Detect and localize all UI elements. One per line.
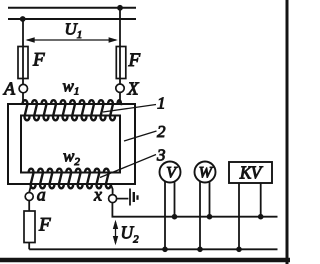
svg-text:F: F: [32, 50, 45, 71]
svg-text:X: X: [127, 79, 140, 99]
fuse F lower: [24, 211, 35, 243]
terminal x circle: [109, 195, 117, 203]
svg-text:U1: U1: [65, 20, 83, 42]
junction dot V lead on upper rail: [172, 214, 178, 220]
core inner rectangle: [21, 116, 120, 173]
svg-text:2: 2: [157, 122, 166, 141]
fuse F right: [116, 47, 126, 79]
svg-text:w2: w2: [63, 147, 80, 169]
leader line to label 2 (core): [124, 131, 157, 141]
junction dot KV lead on upper rail: [258, 214, 264, 220]
svg-text:w1: w1: [63, 76, 80, 97]
bus wire line1 (top supply conductor): [8, 7, 136, 9]
leader line to label 1 (primary winding): [103, 105, 156, 113]
wire w2 left end to terminal a: [29, 185, 31, 193]
terminal A circle: [19, 84, 27, 92]
wire lower fuse to bottom rail: [28, 243, 30, 250]
junction dot on line2 (left drop): [20, 16, 26, 22]
wire bottom measuring rail: [29, 248, 277, 250]
ground symbol (earth): [130, 189, 138, 206]
page frame bottom border: [0, 258, 290, 263]
voltmeter V circle: [160, 162, 181, 183]
wire right drop from bus to terminal X: [119, 8, 121, 84]
kilovoltmeter leads: [239, 183, 261, 249]
voltmeter leads: [165, 182, 175, 250]
wire w2 right end to terminal x: [111, 185, 113, 195]
svg-text:1: 1: [157, 94, 166, 113]
kilovoltmeter KV box: [229, 162, 272, 183]
fuse F left: [18, 47, 28, 79]
wire a to lower fuse: [28, 201, 30, 212]
junction dot W lead on upper rail: [207, 214, 213, 220]
svg-text:U2: U2: [121, 223, 140, 246]
core outer rectangle: [8, 104, 135, 184]
wire left drop from bus to terminal A: [22, 19, 24, 84]
wire X to primary winding: [119, 92, 121, 104]
terminal X circle: [116, 84, 124, 92]
svg-text:A: A: [3, 79, 16, 99]
svg-text:W: W: [199, 164, 214, 181]
wire x terminal down then right (upper measuring rail): [112, 202, 277, 216]
dimension arrow U2: [113, 220, 118, 245]
svg-text:x: x: [93, 185, 102, 205]
leader line to label 3 (secondary winding): [100, 155, 156, 178]
primary winding w1 coil: [23, 100, 122, 120]
page frame right border: [286, 0, 289, 264]
wattmeter leads: [200, 182, 210, 250]
junction dot V lead on bottom rail: [162, 247, 168, 253]
svg-text:KV: KV: [239, 163, 264, 183]
svg-text:3: 3: [156, 146, 166, 165]
wire x terminal to ground symbol: [117, 198, 129, 200]
svg-text:F: F: [128, 50, 141, 71]
secondary winding w2 coil: [29, 169, 111, 189]
svg-text:a: a: [37, 185, 46, 205]
wire A to primary winding: [22, 93, 24, 104]
bus wire line2 (bottom supply conductor): [8, 18, 136, 20]
wattmeter W circle: [195, 162, 216, 183]
svg-text:F: F: [38, 215, 51, 236]
junction dot on line1 (right drop): [117, 5, 123, 11]
junction dot W lead on bottom rail: [197, 247, 203, 253]
dimension arrow U1: [26, 37, 118, 42]
junction dot KV lead on bottom rail: [236, 247, 242, 253]
terminal a circle: [25, 193, 33, 201]
